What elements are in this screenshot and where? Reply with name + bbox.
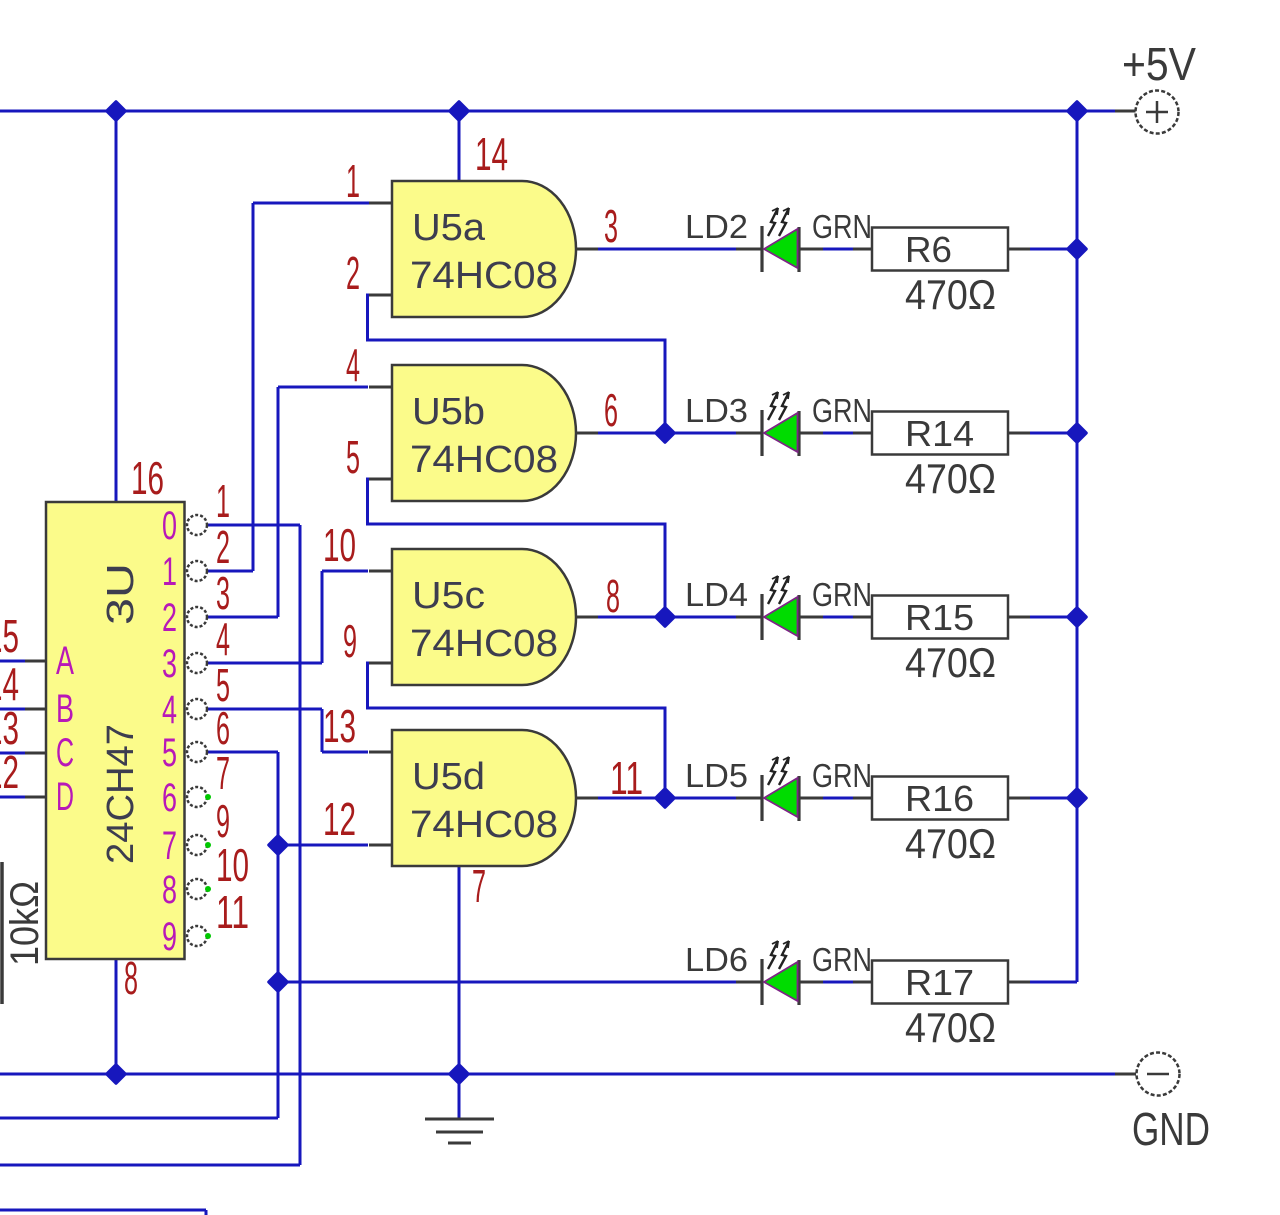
svg-text:GRN: GRN (812, 757, 872, 794)
svg-text:C: C (56, 731, 74, 775)
svg-text:GRN: GRN (812, 576, 872, 613)
svg-text:13: 13 (323, 700, 356, 752)
svg-text:1: 1 (162, 550, 177, 594)
svg-text:R6: R6 (905, 229, 952, 270)
svg-text:74HC08: 74HC08 (410, 623, 558, 665)
svg-text:10kΩ: 10kΩ (3, 881, 47, 966)
svg-text:2: 2 (346, 247, 360, 299)
svg-text:3: 3 (216, 567, 230, 619)
svg-text:3: 3 (604, 200, 618, 252)
svg-text:0: 0 (162, 504, 177, 548)
svg-text:2: 2 (216, 521, 230, 573)
svg-text:A: A (56, 639, 74, 683)
svg-text:9: 9 (343, 615, 357, 667)
svg-text:1: 1 (346, 155, 360, 207)
svg-text:GND: GND (1132, 1103, 1210, 1155)
svg-text:470Ω: 470Ω (905, 639, 996, 686)
svg-text:11: 11 (216, 886, 249, 938)
svg-text:10: 10 (323, 519, 356, 571)
svg-text:470Ω: 470Ω (905, 820, 996, 867)
svg-text:GRN: GRN (812, 208, 872, 245)
svg-text:R14: R14 (905, 413, 974, 454)
svg-text:B: B (56, 687, 74, 731)
svg-text:9: 9 (162, 915, 177, 959)
svg-text:4: 4 (346, 339, 360, 391)
svg-text:470Ω: 470Ω (905, 455, 996, 502)
svg-text:10: 10 (216, 839, 249, 891)
svg-text:7: 7 (216, 747, 230, 799)
svg-text:LD3: LD3 (685, 392, 748, 429)
svg-text:7: 7 (472, 860, 486, 912)
svg-text:74HC08: 74HC08 (410, 439, 558, 481)
svg-text:16: 16 (131, 452, 164, 504)
svg-text:U5c: U5c (412, 575, 485, 617)
svg-text:6: 6 (604, 384, 618, 436)
svg-text:GRN: GRN (812, 392, 872, 429)
svg-text:12: 12 (323, 793, 356, 845)
svg-text:R16: R16 (905, 778, 974, 819)
svg-text:R17: R17 (905, 962, 974, 1003)
svg-text:24CH47: 24CH47 (100, 724, 142, 864)
svg-text:14: 14 (475, 128, 508, 180)
svg-text:15: 15 (0, 610, 19, 662)
svg-text:GRN: GRN (812, 941, 872, 978)
svg-text:R15: R15 (905, 597, 974, 638)
svg-text:8: 8 (606, 570, 620, 622)
svg-text:5: 5 (162, 731, 177, 775)
svg-text:7: 7 (162, 824, 177, 868)
svg-text:D: D (56, 775, 74, 819)
svg-text:74HC08: 74HC08 (410, 255, 558, 297)
svg-text:12: 12 (0, 746, 19, 798)
svg-text:LD6: LD6 (685, 941, 748, 978)
svg-text:LD5: LD5 (685, 757, 748, 794)
svg-text:U5a: U5a (412, 207, 486, 249)
svg-text:U5b: U5b (412, 391, 485, 433)
svg-text:470Ω: 470Ω (905, 271, 996, 318)
svg-text:4: 4 (216, 613, 230, 665)
svg-text:4: 4 (162, 688, 177, 732)
svg-text:6: 6 (162, 776, 177, 820)
svg-text:1: 1 (216, 475, 230, 527)
svg-text:3U: 3U (100, 563, 142, 625)
svg-text:470Ω: 470Ω (905, 1004, 996, 1051)
svg-text:U5d: U5d (412, 756, 485, 798)
svg-text:+5V: +5V (1122, 38, 1196, 90)
svg-text:8: 8 (124, 952, 138, 1004)
svg-text:5: 5 (346, 431, 360, 483)
svg-text:2: 2 (162, 596, 177, 640)
svg-text:74HC08: 74HC08 (410, 804, 558, 846)
svg-text:LD4: LD4 (685, 576, 748, 613)
svg-text:3: 3 (162, 642, 177, 686)
svg-text:LD2: LD2 (685, 208, 748, 245)
svg-text:11: 11 (610, 752, 643, 804)
svg-text:8: 8 (162, 868, 177, 912)
